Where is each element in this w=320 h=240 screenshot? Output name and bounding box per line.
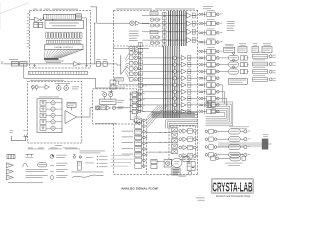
svg-text:ANALOG SIGNAL FLOW: ANALOG SIGNAL FLOW bbox=[121, 187, 158, 191]
svg-text:CRYSTA-LAB: CRYSTA-LAB bbox=[212, 180, 252, 194]
svg-text:Research and Development Dept.: Research and Development Dept. bbox=[215, 195, 251, 198]
svg-text:DIGITAL CONTROL: DIGITAL CONTROL bbox=[54, 46, 73, 49]
